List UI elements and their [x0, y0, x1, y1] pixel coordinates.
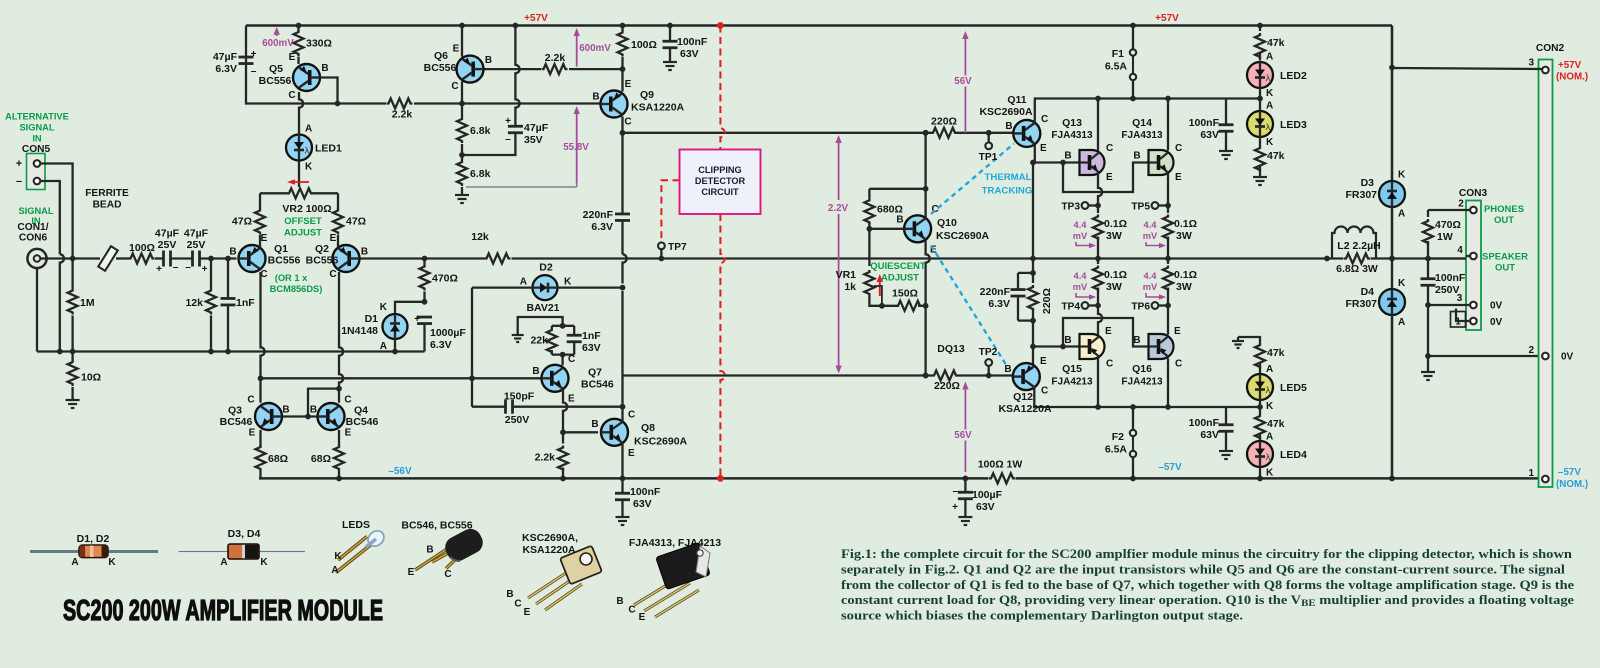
svg-text:63V: 63V [976, 501, 995, 513]
svg-text:K: K [334, 551, 342, 562]
transistor Q8 KSC2690A [601, 419, 628, 446]
fuse F1 6.5A [1105, 23, 1136, 102]
svg-text:1nF: 1nF [582, 330, 601, 342]
ferrite bead FB1 [98, 246, 118, 271]
wire Q2 collector to Q4 [336, 272, 343, 403]
transistor Q11 KSC2690A [1013, 120, 1040, 147]
svg-text:K: K [1398, 170, 1406, 181]
wire lower collector bus [1033, 406, 1260, 408]
resistor 2.2k #1 [387, 99, 413, 121]
svg-text:B: B [485, 55, 492, 66]
label 4.4mV BR [1143, 271, 1166, 300]
svg-text:OUT: OUT [1494, 215, 1514, 226]
capacitor 1000µF 6.3V [414, 314, 466, 352]
resistor 6.8k #2 [457, 152, 491, 190]
svg-text:B: B [426, 545, 433, 556]
svg-text:250V: 250V [505, 414, 530, 426]
svg-text:FR307: FR307 [1345, 189, 1377, 201]
testpoint TP3 [1061, 202, 1098, 213]
capacitor 100nF 63V top-right [1189, 99, 1234, 147]
wire Q6 collector [459, 82, 465, 107]
svg-text:ADJUST: ADJUST [881, 273, 919, 284]
capacitor 100µF 63V [952, 476, 1002, 514]
svg-text:VR1: VR1 [836, 269, 857, 281]
resistor 22k [518, 317, 575, 355]
wire VAS line (Q9 base) [246, 26, 601, 104]
svg-text:4.4: 4.4 [1144, 220, 1158, 230]
svg-text:E: E [628, 448, 635, 459]
resistor 100Ω 1W [978, 459, 1023, 484]
svg-text:0.1Ω: 0.1Ω [1104, 269, 1127, 281]
svg-text:Q10: Q10 [937, 217, 957, 229]
label QUIESCENT ADJUST [870, 261, 926, 284]
svg-text:150pF: 150pF [504, 391, 535, 403]
picture diode D1 D2 [30, 533, 158, 568]
ground 100nF bottom-right [1219, 446, 1233, 459]
svg-text:47µF: 47µF [155, 228, 180, 240]
svg-text:+: + [251, 49, 257, 60]
svg-text:B: B [506, 589, 513, 600]
svg-text:K: K [1266, 468, 1274, 479]
svg-text:+: + [16, 158, 22, 170]
transistor Q12 KSA1220A [1013, 363, 1040, 390]
connector CON2 [1536, 43, 1565, 487]
svg-text:Q5: Q5 [269, 63, 283, 75]
svg-text:68Ω: 68Ω [311, 453, 331, 465]
svg-text:6.3V: 6.3V [430, 339, 452, 351]
svg-text:LED4: LED4 [1280, 449, 1307, 461]
wire Q8 emitter to rail [620, 443, 626, 481]
svg-text:4: 4 [1457, 245, 1463, 256]
svg-text:B: B [591, 419, 598, 430]
svg-text:KSC2690A: KSC2690A [936, 230, 990, 242]
svg-text:63V: 63V [633, 498, 652, 510]
svg-text:1: 1 [1528, 468, 1534, 479]
svg-text:330Ω: 330Ω [306, 38, 332, 50]
svg-text:1M: 1M [80, 297, 95, 309]
svg-text:–56V: –56V [388, 466, 412, 477]
svg-text:E: E [1174, 326, 1181, 337]
resistor 12k feedback [471, 231, 510, 264]
svg-text:B: B [896, 215, 903, 226]
resistor 330Ω [294, 23, 332, 64]
svg-text:BC556: BC556 [306, 255, 339, 267]
svg-text:LEDS: LEDS [342, 519, 370, 531]
transistor Q4 BC546 [318, 403, 345, 430]
LED3 [1247, 101, 1307, 149]
svg-text:2: 2 [1528, 345, 1534, 356]
svg-text:E: E [453, 44, 460, 55]
svg-text:600mV: 600mV [262, 38, 294, 49]
svg-text:λ: λ [305, 146, 310, 157]
svg-text:Q3: Q3 [228, 405, 242, 417]
svg-text:C: C [329, 269, 336, 280]
capacitor 1nF input [221, 256, 256, 355]
testpoint TP4 [1061, 302, 1098, 313]
svg-text:47µF: 47µF [184, 228, 209, 240]
svg-text:B: B [1005, 121, 1012, 132]
svg-text:470Ω: 470Ω [1435, 219, 1461, 231]
label Q3 [220, 395, 290, 439]
svg-text:12k: 12k [471, 231, 489, 243]
svg-text:100nF: 100nF [1435, 272, 1466, 284]
svg-text:47k: 47k [1267, 37, 1285, 49]
svg-text:+57V: +57V [1155, 13, 1179, 24]
resistor 68Ω right [311, 430, 344, 481]
svg-text:BEAD: BEAD [93, 200, 122, 211]
diode D4 FR307 [1345, 278, 1406, 481]
svg-text:K: K [380, 302, 388, 313]
resistor 220Ω driver emitters [1028, 273, 1053, 321]
svg-text:C: C [444, 569, 451, 580]
svg-text:C: C [344, 395, 351, 406]
svg-text:from the collector of Q1 is fe: from the collector of Q1 is fed to the b… [841, 578, 1574, 592]
potentiometer VR2 100Ω offset adjust [260, 161, 338, 198]
testpoint TP6 [1131, 302, 1168, 313]
wire Q12 emitter chain [1030, 321, 1036, 365]
resistor 150Ω [892, 288, 922, 311]
transistor Q7 BC546 [542, 365, 569, 392]
testpoint TP2 [979, 347, 998, 378]
label THERMAL TRACKING [982, 172, 1033, 197]
label Q2 [306, 233, 368, 280]
wire Q12 collector [1033, 387, 1034, 407]
svg-text:10Ω: 10Ω [81, 372, 101, 384]
connector CON3 [1459, 188, 1488, 330]
picture KSC2690A KSA1220A package [506, 532, 602, 618]
svg-text:A: A [220, 557, 227, 568]
svg-text:100nF: 100nF [1189, 117, 1220, 129]
resistor 2.2k #2 [542, 52, 568, 74]
svg-text:–: – [173, 262, 179, 273]
svg-text:BCM856DS): BCM856DS) [270, 284, 323, 294]
label SPEAKER OUT [1482, 252, 1528, 274]
svg-text:F1: F1 [1112, 48, 1124, 60]
svg-text:λ: λ [1266, 122, 1271, 133]
svg-text:F2: F2 [1112, 431, 1124, 443]
svg-text:E: E [289, 52, 296, 63]
svg-text:TP1: TP1 [979, 152, 998, 163]
svg-text:C: C [247, 395, 254, 406]
svg-text:λ: λ [1266, 452, 1271, 463]
svg-text:ALTERNATIVE: ALTERNATIVE [5, 112, 69, 122]
svg-text:–57V: –57V [1158, 462, 1182, 473]
wire Q16 collector [1165, 358, 1171, 410]
svg-text:K: K [1398, 278, 1406, 289]
LED2 [1247, 52, 1307, 111]
transistor Q14 FJA4313 [1149, 150, 1174, 175]
svg-text:100nF: 100nF [677, 36, 708, 48]
label +57V NOM [1556, 60, 1588, 83]
svg-text:Fig.1: the complete circuit fo: Fig.1: the complete circuit for the SC20… [841, 547, 1572, 561]
label Q10 [896, 204, 989, 256]
transistor Q5 BC556 [293, 64, 320, 91]
svg-text:constant current load for Q8,: constant current load for Q8, providing … [841, 593, 1574, 609]
svg-text:E: E [408, 567, 415, 578]
transistor Q13 FJA4313 [1080, 150, 1105, 175]
svg-text:B: B [532, 366, 539, 377]
label OR 1x BCM856DS [270, 273, 323, 294]
wire Q10 base [867, 226, 905, 232]
svg-text:0.1Ω: 0.1Ω [1174, 269, 1197, 281]
wire -57V bottom rail [259, 477, 1542, 480]
label SIGNAL IN CON1/CON6 [17, 206, 53, 244]
svg-text:A: A [331, 565, 338, 576]
wire Q11 collector [1034, 99, 1036, 124]
svg-text:E: E [639, 612, 646, 623]
svg-text:3W: 3W [1176, 230, 1192, 242]
svg-text:–: – [505, 134, 511, 145]
svg-text:KSA1220A: KSA1220A [998, 403, 1052, 415]
svg-text:E: E [261, 233, 268, 244]
capacitor 47µF 25V #2 [184, 228, 209, 276]
resistor 12k input [185, 256, 216, 355]
svg-text:Q2: Q2 [315, 243, 329, 255]
svg-text:Q6: Q6 [434, 50, 448, 62]
LED5 [1247, 364, 1307, 414]
wire right trunk +57V to -57V [1391, 26, 1393, 479]
svg-text:0.1Ω: 0.1Ω [1174, 218, 1197, 230]
svg-text:E: E [330, 233, 337, 244]
svg-text:LED1: LED1 [315, 143, 342, 155]
wire CON2 +57V [1392, 68, 1542, 69]
svg-text:47k: 47k [1267, 418, 1285, 430]
svg-text:C: C [628, 410, 635, 421]
svg-text:TP3: TP3 [1061, 202, 1080, 213]
transistor Q10 KSC2690A [904, 215, 931, 242]
wire Q10 collector up [924, 133, 926, 189]
svg-text:KSA1220A: KSA1220A [631, 102, 685, 114]
label Q16 [1121, 326, 1182, 388]
svg-text:3W: 3W [1106, 281, 1122, 293]
svg-text:12k: 12k [185, 297, 203, 309]
svg-text:PHONES: PHONES [1484, 204, 1524, 215]
capacitor 1nF 63V [552, 326, 601, 358]
svg-text:Q13: Q13 [1062, 117, 1082, 129]
svg-text:TP5: TP5 [1131, 202, 1150, 213]
svg-text:0V: 0V [1561, 352, 1574, 363]
svg-text:TP4: TP4 [1061, 302, 1080, 313]
wire phones line [1428, 209, 1470, 211]
caption Fig.1 text [841, 547, 1574, 623]
capacitor 100nF 63V bottom-right [1189, 407, 1234, 446]
inductor L2 2.2µH [1324, 227, 1395, 262]
svg-text:C: C [628, 605, 635, 616]
svg-text:47µF: 47µF [524, 122, 549, 134]
resistor 0.1Ω 3W #1 (Q13) [1093, 173, 1127, 261]
svg-text:–: – [185, 262, 191, 273]
label +57V left [524, 13, 548, 24]
svg-text:FJA4213: FJA4213 [1121, 377, 1163, 388]
label Q5 [259, 52, 329, 101]
svg-text:E: E [568, 394, 575, 405]
label ALTERNATIVE SIGNAL IN [5, 112, 69, 156]
svg-text:1000µF: 1000µF [430, 327, 466, 339]
svg-text:D1, D2: D1, D2 [77, 533, 110, 545]
svg-text:E: E [1175, 172, 1182, 183]
transistor Q1 BC556 [239, 245, 266, 272]
wire Q10 collector bracket [869, 130, 928, 217]
diode D1 1N4148 [341, 302, 424, 355]
label Q8 [591, 410, 687, 460]
svg-text:56V: 56V [954, 76, 972, 87]
wire LED1 anode to Q5 collector [299, 92, 303, 135]
resistor 6.8k #1 [457, 104, 491, 156]
svg-text:A: A [520, 277, 527, 288]
svg-text:3W: 3W [1106, 230, 1122, 242]
transistor Q6 BC556 [457, 56, 484, 83]
svg-text:B: B [1004, 364, 1011, 375]
svg-text:C: C [624, 117, 631, 128]
svg-text:D2: D2 [539, 262, 553, 274]
testpoint TP7 [658, 242, 687, 261]
wire Q14 collector [1165, 96, 1171, 151]
voltage 55.8V [466, 106, 589, 187]
wire CON3 pin3 0V [1428, 304, 1470, 306]
svg-text:A: A [1398, 317, 1405, 328]
svg-text:63V: 63V [582, 342, 601, 354]
testpoint TP1 [979, 130, 998, 163]
svg-text:2.2k: 2.2k [535, 452, 556, 464]
svg-text:FJA4313, FJA4213: FJA4313, FJA4213 [629, 537, 721, 549]
svg-text:+57V: +57V [1558, 60, 1582, 71]
svg-text:Q14: Q14 [1132, 117, 1152, 129]
label Q11 [979, 94, 1048, 154]
resistor 6.8Ω 3W [1336, 254, 1378, 276]
svg-text:mV: mV [1073, 231, 1088, 241]
red dashed branch to TP7 [661, 180, 679, 242]
label CON3 pins [1455, 199, 1464, 328]
capacitor 220nF 6.3V driver [980, 270, 1036, 324]
svg-text:+: + [156, 264, 162, 275]
svg-text:A: A [1266, 432, 1273, 443]
svg-text:2.2k: 2.2k [392, 109, 413, 121]
label Q7 [532, 354, 613, 405]
svg-text:BC556: BC556 [259, 75, 292, 87]
svg-text:4.4: 4.4 [1074, 271, 1088, 281]
svg-text:4.4: 4.4 [1074, 220, 1088, 230]
svg-text:1: 1 [1455, 317, 1461, 328]
svg-text:A: A [1266, 364, 1273, 375]
svg-text:E: E [524, 607, 531, 618]
label FERRITE BEAD [85, 188, 129, 211]
picture FJA4313 FJA4213 package [616, 537, 721, 623]
svg-text:Q9: Q9 [640, 89, 654, 101]
svg-text:B: B [361, 247, 368, 258]
svg-text:B: B [1064, 335, 1071, 346]
resistor 680Ω [864, 189, 903, 229]
label DQ13 [937, 343, 965, 355]
label 4.4mV TR [1143, 220, 1166, 248]
wire Q11 emitter chain [1030, 144, 1036, 273]
svg-text:CLIPPING: CLIPPING [698, 165, 741, 175]
svg-text:4.4: 4.4 [1144, 271, 1158, 281]
label Q13 [1051, 117, 1113, 183]
wire Q4 base-collector link [305, 389, 339, 420]
svg-text:2: 2 [1458, 199, 1464, 210]
svg-text:B: B [592, 92, 599, 103]
svg-text:THERMAL: THERMAL [985, 172, 1032, 183]
svg-text:C: C [1041, 386, 1048, 397]
connector CON1 coax input [27, 249, 50, 268]
svg-text:E: E [1040, 143, 1047, 154]
svg-text:100Ω: 100Ω [631, 39, 657, 51]
diode D2 BAV21 [472, 262, 625, 315]
svg-text:A: A [71, 557, 78, 568]
svg-text:A: A [305, 124, 312, 135]
wire Q7 base line [261, 377, 543, 379]
svg-text:CON2: CON2 [1536, 43, 1565, 54]
svg-text:–: – [16, 176, 22, 188]
label 4.4mV TL [1073, 220, 1096, 248]
wire Q13 collector [1095, 96, 1101, 151]
svg-text:63V: 63V [1200, 429, 1219, 441]
diode D3 FR307 [1345, 26, 1406, 262]
svg-text:0V: 0V [1490, 317, 1503, 328]
wire Q7 emitter to Q8 base [560, 389, 598, 435]
svg-text:3: 3 [1528, 58, 1534, 69]
svg-text:FJA4213: FJA4213 [1051, 377, 1093, 388]
ground 100nF top-right [1219, 146, 1233, 159]
svg-text:D3, D4: D3, D4 [228, 528, 261, 540]
svg-text:Q7: Q7 [588, 367, 602, 379]
wire +57V top rail [246, 24, 1392, 27]
svg-text:6.8k: 6.8k [470, 168, 491, 180]
svg-text:LED5: LED5 [1280, 382, 1307, 394]
picture diode D3 D4 [179, 528, 305, 568]
svg-text:–: – [251, 66, 257, 77]
resistor 100Ω input [129, 242, 155, 264]
svg-text:mV: mV [1143, 231, 1158, 241]
label 4.4mV BL [1073, 271, 1096, 300]
svg-text:L2 2.2µH: L2 2.2µH [1337, 240, 1380, 252]
svg-text:B: B [321, 63, 328, 74]
svg-text:E: E [1106, 172, 1113, 183]
svg-text:mV: mV [1143, 282, 1158, 292]
transistor Q16 FJA4213 [1149, 334, 1174, 359]
svg-text:100nF: 100nF [1189, 417, 1220, 429]
svg-text:2.2k: 2.2k [545, 52, 566, 64]
svg-text:1N4148: 1N4148 [341, 325, 378, 337]
svg-text:KSC2690A,: KSC2690A, [522, 532, 578, 544]
svg-text:0.1Ω: 0.1Ω [1104, 218, 1127, 230]
svg-text:B: B [616, 596, 623, 607]
svg-text:source which biases the comple: source which biases the complementary Da… [841, 609, 1243, 623]
capacitor 220nF 6.3V [615, 117, 630, 255]
voltage 600mV left [262, 27, 294, 49]
svg-text:68Ω: 68Ω [268, 453, 288, 465]
svg-text:TP6: TP6 [1131, 302, 1150, 313]
resistor 47k LED5 [1232, 337, 1285, 374]
svg-text:150Ω: 150Ω [892, 288, 918, 300]
svg-text:+57V: +57V [524, 13, 548, 24]
ground 22k [512, 331, 524, 342]
thermal tracking dashes [931, 144, 1014, 368]
ground 100nF top [663, 57, 677, 70]
svg-text:6.3V: 6.3V [988, 298, 1010, 310]
svg-text:100µF: 100µF [972, 489, 1003, 501]
svg-text:SIGNAL: SIGNAL [19, 123, 54, 133]
svg-text:VR2 100Ω: VR2 100Ω [282, 203, 331, 215]
wire CON3 pin1 jumper [1451, 309, 1471, 328]
svg-text:QUIESCENT: QUIESCENT [870, 261, 926, 272]
wire 22k to Q7 collector [561, 355, 563, 366]
wire Q5 base drop [320, 78, 340, 107]
capacitor 150pF 250V [472, 391, 625, 427]
svg-text:C: C [514, 599, 521, 610]
label -57V mid [1158, 462, 1182, 473]
svg-text:220Ω: 220Ω [934, 380, 960, 392]
